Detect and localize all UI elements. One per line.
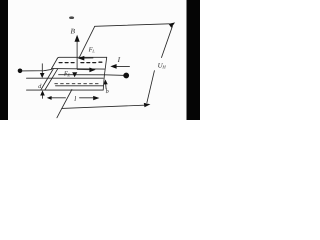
loop right edge upper stub bbox=[162, 26, 173, 57]
speck at top bbox=[69, 16, 74, 19]
svg-text:l: l bbox=[74, 95, 76, 103]
wire from left terminal to slab bbox=[21, 69, 52, 71]
loop bottom-right arrowhead bbox=[144, 103, 151, 107]
slab top face left edge bbox=[52, 58, 58, 68]
d dimension upper arrow bbox=[41, 64, 43, 73]
electron velocity arrow on back edge bbox=[84, 57, 93, 59]
slab top face front edge (midline) bbox=[52, 68, 105, 71]
svg-text:I: I bbox=[117, 56, 121, 64]
loop top-right arrowhead bbox=[169, 22, 176, 27]
loop right edge lower stub bbox=[147, 71, 155, 103]
dashed charge row on lower layer bbox=[55, 83, 100, 85]
node: right terminal dot bbox=[123, 73, 129, 79]
lower layer bottom edge with d extension bbox=[27, 89, 104, 91]
minus charge row on top face bbox=[59, 61, 102, 63]
lower layer top edge with d extension bbox=[27, 77, 104, 79]
svg-text:b: b bbox=[106, 88, 109, 95]
force arrow along midline (to the right) bbox=[77, 69, 90, 71]
slab top face right edge bbox=[103, 57, 107, 90]
left black bar bbox=[0, 0, 8, 120]
current I arrow bbox=[116, 65, 130, 67]
lower layer back bottom edge bbox=[56, 85, 104, 87]
U_H loop: top edge bbox=[95, 24, 170, 27]
node: left terminal dot bbox=[18, 69, 23, 74]
right black bar bbox=[187, 0, 201, 120]
B field arrow bbox=[76, 41, 78, 69]
loop bottom edge bbox=[62, 105, 144, 108]
svg-text:B: B bbox=[71, 28, 76, 36]
l dimension line with outward arrows bbox=[52, 97, 66, 99]
svg-text:E: E bbox=[66, 73, 70, 78]
d dimension lower arrow bbox=[42, 95, 44, 98]
loop left edge (to back contact) bbox=[79, 26, 94, 57]
wire to right terminal bbox=[105, 74, 127, 77]
F_E down arrow bbox=[72, 72, 77, 77]
b dimension arrow at right end bbox=[105, 84, 107, 89]
slab top face back edge bbox=[57, 57, 106, 58]
left slant 2 bbox=[45, 69, 58, 90]
loop front contact wire bbox=[62, 90, 72, 109]
left slant 1 bbox=[41, 69, 54, 91]
inner line (wire level through slab) bbox=[59, 74, 105, 76]
svg-text:H: H bbox=[161, 65, 166, 70]
